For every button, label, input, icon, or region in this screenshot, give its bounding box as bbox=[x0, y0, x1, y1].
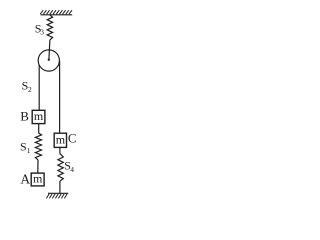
svg-text:m: m bbox=[33, 172, 43, 186]
svg-text:m: m bbox=[34, 109, 44, 123]
svg-text:1: 1 bbox=[27, 146, 31, 155]
svg-text:S: S bbox=[20, 140, 27, 154]
svg-text:m: m bbox=[56, 132, 66, 146]
svg-text:B: B bbox=[20, 109, 29, 124]
svg-text:2: 2 bbox=[28, 85, 32, 94]
svg-text:A: A bbox=[20, 172, 30, 187]
svg-text:3: 3 bbox=[40, 28, 44, 37]
svg-text:4: 4 bbox=[70, 165, 74, 174]
svg-text:C: C bbox=[68, 131, 77, 146]
